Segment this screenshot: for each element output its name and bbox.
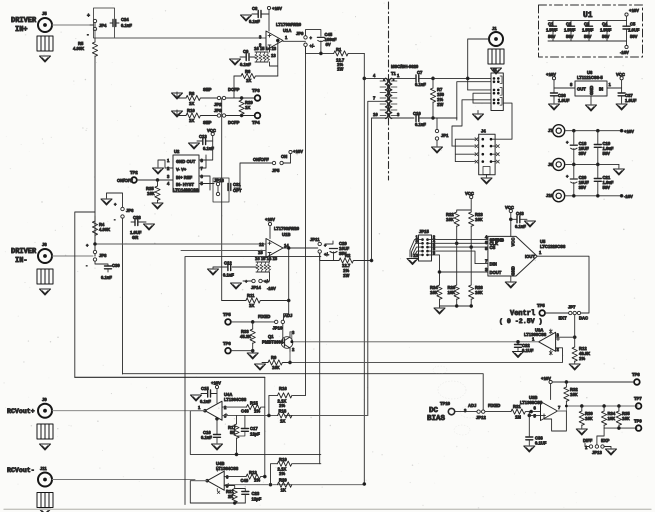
svg-text:-: - [86, 263, 88, 268]
capacitor C24 [110, 17, 132, 28]
svg-text:J7: J7 [548, 128, 553, 133]
ground J2 [473, 111, 484, 121]
svg-text:JP11: JP11 [310, 237, 320, 242]
svg-text:1%: 1% [279, 403, 285, 408]
svg-text:1%: 1% [254, 478, 260, 483]
capacitor C31 OPT [228, 182, 242, 193]
svg-text:50V: 50V [602, 34, 610, 39]
svg-text:1.0UF: 1.0UF [625, 98, 637, 103]
svg-text:1K: 1K [246, 78, 251, 83]
svg-text:+: + [86, 243, 89, 248]
resistor R19 2.1K [271, 457, 321, 485]
svg-text:50V: 50V [584, 34, 592, 39]
ground V- pin [153, 160, 174, 174]
svg-text:C15: C15 [201, 386, 209, 391]
resistor R26 10K [469, 247, 484, 306]
svg-text:SEP: SEP [203, 87, 212, 92]
resistor R5 4.99K [73, 41, 98, 56]
resistor R20 1K [277, 478, 291, 493]
svg-text:JP10: JP10 [273, 326, 283, 331]
ground J8 [613, 164, 624, 175]
testpoint TP5V [537, 303, 569, 316]
wire TP5 to JP10 [231, 321, 274, 323]
ground C15 [191, 395, 202, 401]
svg-text:IN: IN [599, 87, 603, 92]
resistor R30 45.3K [240, 322, 255, 351]
wire U1B- input [181, 250, 266, 252]
dashed box U1 bypass [539, 5, 643, 57]
wire pulldown bottoms [440, 306, 472, 307]
+16V U1B [265, 217, 275, 239]
svg-text:Ventrl: Ventrl [510, 310, 535, 318]
svg-text:1K: 1K [249, 303, 254, 308]
svg-text:TP4: TP4 [252, 120, 260, 125]
svg-text:U2: U2 [174, 149, 180, 154]
ground J5 [40, 56, 51, 62]
testpoint TP3 [252, 88, 260, 101]
transistor Q1 [262, 330, 295, 352]
svg-text:+16V: +16V [546, 72, 556, 77]
jumper JP7 [559, 305, 589, 321]
resistor R17 5K [228, 416, 239, 455]
long wire y374 to ADJ [123, 374, 484, 410]
ground R12 [569, 364, 580, 370]
ground C16 [212, 444, 223, 450]
svg-text:R10: R10 [187, 108, 195, 113]
svg-text:DIFF: DIFF [583, 438, 593, 443]
capacitor C5 [623, 21, 640, 41]
svg-text:+: + [566, 174, 569, 179]
wire U4B- to R13 [224, 476, 246, 478]
jumper JP13 [585, 445, 604, 455]
svg-text:1M: 1M [515, 415, 521, 420]
capacitor C23 12pF [235, 489, 262, 504]
jumper JP16 [213, 178, 229, 202]
testpoint TP8 [632, 372, 640, 385]
svg-text:2: 2 [292, 347, 295, 352]
svg-text:10K: 10K [622, 416, 630, 421]
svg-text:TP2: TP2 [130, 170, 138, 175]
wires JP15 to DAC [428, 240, 488, 272]
svg-text:VCC: VCC [465, 191, 474, 196]
svg-text:C4: C4 [602, 22, 608, 27]
svg-text:SEP: SEP [203, 120, 212, 125]
svg-text:JP12: JP12 [476, 415, 486, 420]
wire to JP12 [455, 411, 477, 413]
svg-text:JP14: JP14 [251, 285, 261, 290]
svg-text:TP6: TP6 [223, 341, 231, 346]
svg-text:JP8: JP8 [99, 253, 107, 258]
svg-text:R18: R18 [279, 409, 287, 414]
capacitor C9 [240, 49, 255, 67]
wire comp to pins [270, 41, 278, 77]
svg-text:DRIVER: DRIVER [11, 17, 37, 25]
svg-text:10: 10 [373, 112, 378, 117]
jumper JP14 [243, 276, 276, 291]
capacitor C22 [515, 340, 534, 353]
svg-text:+/-: +/- [324, 252, 330, 257]
jumper JP1 [435, 118, 449, 146]
svg-text:C5: C5 [630, 22, 636, 27]
shield J11 [37, 493, 53, 508]
ground C38 [524, 446, 535, 452]
svg-text:DC: DC [429, 407, 439, 415]
wire JP13 left [585, 443, 589, 447]
svg-text:GND: GND [511, 266, 516, 275]
capacitor C1 [546, 21, 558, 41]
svg-text:1: 1 [609, 82, 612, 87]
svg-text:J1: J1 [492, 26, 497, 31]
svg-text:( 0 -2.5V ): ( 0 -2.5V ) [499, 318, 543, 325]
wire R1 to T1 pin4 [364, 53, 386, 78]
wire JP2/JP3 rail down [221, 98, 223, 301]
connector J2 [491, 67, 503, 111]
wire IOUT [537, 256, 589, 313]
capacitor C38 [526, 412, 547, 446]
svg-text:0.1uF: 0.1uF [515, 224, 526, 229]
svg-text:0.1uF: 0.1uF [415, 122, 426, 127]
row SEP/DCFP 1 : ground R8 [172, 93, 183, 99]
svg-text:7: 7 [201, 166, 204, 171]
svg-text:J9: J9 [42, 397, 47, 402]
svg-text:50V: 50V [603, 151, 611, 156]
svg-text:-16V: -16V [624, 194, 633, 199]
wire Q1 emitter row [290, 352, 563, 363]
resistor R10 1K [177, 108, 217, 123]
svg-text:IN- HYST: IN- HYST [176, 182, 194, 187]
svg-text:1.0UF: 1.0UF [564, 28, 576, 33]
wire U4A- to R15 [222, 406, 247, 408]
resistor R25 10K [146, 180, 160, 203]
svg-text:10K: 10K [446, 217, 454, 222]
+16V JP5 [289, 149, 303, 163]
svg-text:C46: C46 [241, 409, 249, 414]
IC U2 LTC1460CS8 [167, 149, 204, 193]
svg-text:DIN: DIN [490, 262, 497, 267]
svg-text:TP9: TP9 [634, 419, 642, 424]
svg-text:TP8: TP8 [632, 372, 640, 377]
svg-text:J8: J8 [548, 162, 553, 167]
svg-text:10K: 10K [448, 290, 456, 295]
ground C36 [549, 104, 560, 110]
ground R9 [255, 364, 266, 370]
svg-text:6V: 6V [326, 42, 331, 47]
svg-text:8: 8 [570, 82, 573, 87]
svg-text:C10: C10 [413, 111, 421, 116]
+16V U1A [267, 6, 282, 31]
svg-text:+16V: +16V [293, 149, 303, 154]
resistor R9 10K [262, 355, 290, 370]
dash-dot line [388, 2, 390, 180]
wire JP11 to R2 [320, 253, 339, 260]
ground C8 [241, 15, 252, 21]
svg-text:C1: C1 [548, 22, 554, 27]
svg-text:TP3: TP3 [252, 88, 260, 93]
resistor R11 1K [222, 293, 289, 308]
ground JP1 [432, 147, 443, 153]
svg-text:-16V: -16V [620, 50, 629, 55]
svg-text:8: 8 [201, 158, 204, 163]
svg-text:16 15 14 13: 16 15 14 13 [254, 46, 277, 51]
svg-text:12pF: 12pF [250, 432, 260, 437]
svg-text:TP5: TP5 [223, 312, 231, 317]
resistor R4 4.99K [92, 216, 110, 256]
svg-text:3: 3 [259, 35, 262, 40]
jumper JP8a [114, 202, 134, 374]
connector J11 [38, 466, 52, 487]
ground C37 [616, 104, 627, 110]
ground C11 [208, 267, 220, 275]
svg-text:ON/OFF: ON/OFF [117, 178, 133, 183]
svg-text:C24: C24 [121, 17, 129, 22]
svg-text:GR: GR [132, 235, 138, 240]
svg-text:+16V: +16V [211, 381, 221, 386]
svg-text:1K: 1K [281, 488, 286, 493]
svg-text:JP3: JP3 [214, 108, 222, 113]
svg-text:1.0UF: 1.0UF [600, 28, 612, 33]
secondary winding [389, 78, 391, 118]
svg-text:ADJ: ADJ [284, 313, 293, 318]
svg-text:0.1uF: 0.1uF [240, 62, 251, 67]
svg-text:1%: 1% [579, 356, 585, 361]
box U1B region [185, 257, 321, 505]
svg-text:1.0UF: 1.0UF [558, 98, 570, 103]
svg-text:LT1793#W20: LT1793#W20 [274, 226, 300, 231]
svg-text:JP16: JP16 [214, 178, 224, 183]
svg-text:OPT: OPT [233, 188, 242, 193]
svg-text:J2: J2 [492, 67, 497, 72]
wire R5 down to JP8 row [94, 38, 96, 256]
wire J6 to JP8 [52, 255, 93, 257]
VCC DAC [505, 205, 514, 236]
svg-text:10K: 10K [585, 416, 593, 421]
wire JP12 to R31 [485, 411, 511, 413]
wire U4A+ row [222, 415, 368, 417]
feedback U3B [544, 411, 566, 431]
svg-text:7: 7 [373, 96, 376, 101]
svg-text:13: 13 [271, 53, 276, 58]
svg-text:J10: J10 [546, 193, 554, 198]
svg-text:1.0UF: 1.0UF [628, 28, 640, 33]
wire U1B out down to JP10 [284, 248, 320, 464]
svg-text:1.0UF: 1.0UF [582, 28, 594, 33]
ground comp [231, 283, 242, 289]
svg-text:FIXED: FIXED [258, 314, 270, 319]
svg-text:1K: 1K [189, 118, 194, 123]
svg-text:0.1uF: 0.1uF [201, 435, 212, 440]
svg-text:JP6: JP6 [126, 208, 134, 213]
DAC U5 LTC1329 [485, 235, 566, 277]
svg-text:EXT: EXT [559, 316, 568, 321]
header JP15 [414, 229, 436, 261]
wire J5 to JP4 [52, 24, 93, 26]
svg-text:J4: J4 [481, 129, 486, 134]
wires J4 [452, 139, 475, 161]
capacitor C4 [600, 21, 612, 41]
resistor R28 10K [448, 243, 460, 306]
svg-text:C43: C43 [516, 211, 524, 216]
svg-text:12pF: 12pF [252, 497, 262, 502]
jumper JP3 [214, 108, 226, 117]
op-amp U1A [259, 22, 302, 58]
svg-text:IN+ REF: IN+ REF [176, 175, 193, 180]
svg-text:IN+: IN+ [15, 26, 28, 34]
resistor R18 1K [278, 409, 292, 424]
svg-text:3: 3 [167, 174, 170, 179]
svg-text:JP13: JP13 [592, 450, 602, 455]
connector J9 [38, 397, 52, 418]
svg-text:-: - [87, 32, 89, 38]
svg-text:50V: 50V [548, 34, 556, 39]
capacitor C19 [594, 131, 614, 165]
+16V U3B [541, 376, 634, 400]
wire J11 to U4B [52, 480, 207, 481]
svg-text:OUT: OUT [577, 87, 586, 92]
op-amp U4B [207, 461, 239, 494]
svg-text:C2: C2 [566, 22, 572, 27]
svg-text:4.99K: 4.99K [73, 46, 84, 51]
svg-text:1%: 1% [279, 471, 285, 476]
wire J9 to U4A [52, 410, 205, 412]
svg-text:10K: 10K [608, 416, 616, 421]
feedback loop U4A [190, 411, 320, 455]
+16V bypass [625, 8, 639, 21]
svg-text:VCC: VCC [505, 205, 514, 210]
svg-text:0.1UF: 0.1UF [535, 441, 547, 446]
svg-text:7: 7 [558, 405, 561, 410]
capacitor C12 [219, 261, 256, 278]
svg-text:50V: 50V [630, 34, 638, 39]
svg-text:+: + [566, 140, 569, 145]
resistor R7 150 [430, 77, 444, 119]
svg-text:JP2: JP2 [214, 102, 222, 107]
wire T1 pin10 R2 [367, 118, 386, 261]
capacitor C20 [566, 164, 589, 195]
jumper JP4 [87, 8, 115, 38]
capacitor C29 [325, 241, 350, 256]
svg-text:10K: 10K [570, 392, 578, 397]
resistor R6 1K [234, 69, 278, 83]
bypass rail bottom [548, 40, 627, 42]
svg-text:LTC1460CS8: LTC1460CS8 [173, 188, 199, 193]
svg-text:1K: 1K [280, 419, 285, 424]
connector J10 [546, 190, 565, 202]
resistor R15 1K [241, 401, 265, 414]
ground C9 [230, 59, 241, 65]
ground J9 [40, 444, 51, 450]
svg-text:2K: 2K [228, 494, 233, 499]
svg-text:R20: R20 [279, 478, 287, 483]
testpoint TP6 [223, 341, 231, 354]
svg-text:1.0UF: 1.0UF [546, 28, 558, 33]
capacitor C21 [594, 164, 614, 195]
resistor R12 49.9K [572, 337, 590, 363]
resistor R21 2K [224, 486, 237, 504]
svg-text:4: 4 [373, 73, 376, 78]
capacitor C30 [95, 261, 120, 280]
ground C43 [525, 221, 536, 227]
resistor R35 10K [616, 405, 630, 429]
svg-text:LT1364CS8: LT1364CS8 [224, 397, 247, 402]
op-amp U3A [524, 328, 560, 356]
resistor R16 2.1K [269, 386, 306, 416]
svg-text:PMBT3904: PMBT3904 [262, 340, 284, 345]
svg-text:10K: 10K [475, 290, 483, 295]
jumper JP2 [214, 96, 226, 107]
svg-text:3: 3 [464, 408, 467, 413]
wire U4B+ row [224, 484, 364, 486]
capacitor C37 [618, 88, 637, 103]
wire U3B out row [558, 406, 639, 411]
svg-text:R15: R15 [250, 401, 258, 406]
svg-text:DCFP: DCFP [228, 120, 240, 125]
svg-text:35V: 35V [579, 151, 587, 156]
svg-text:45.3K: 45.3K [240, 334, 251, 339]
svg-text:DRIVER: DRIVER [11, 248, 37, 256]
svg-text:JP7: JP7 [568, 305, 576, 310]
svg-text:R2: R2 [345, 253, 351, 258]
capacitor C45 [317, 32, 337, 53]
resistor R31 1M [511, 404, 541, 420]
svg-text:0.1uF: 0.1uF [415, 82, 426, 87]
wire JP9 to R1 [306, 46, 334, 53]
svg-text:5K: 5K [230, 430, 235, 435]
svg-text:DAC: DAC [579, 316, 588, 321]
svg-text:4.99K: 4.99K [99, 227, 110, 232]
ground pulldowns [434, 308, 445, 314]
svg-text:1W: 1W [337, 67, 343, 72]
capacitor C17 12pF [237, 416, 261, 437]
wire J7 +16V [566, 130, 620, 132]
svg-text:0.1UF: 0.1UF [522, 348, 534, 353]
connector J1 [489, 26, 503, 46]
svg-text:GND OUT: GND OUT [176, 159, 196, 164]
svg-text:+16V: +16V [272, 6, 282, 11]
resistor R22 10K [446, 212, 459, 243]
op-amp U4A [198, 392, 247, 420]
ground JP13 [604, 447, 617, 456]
jumper JP9 [296, 31, 315, 49]
svg-text:R19: R19 [279, 457, 287, 462]
VCC U2 [199, 128, 216, 160]
svg-text:1W: 1W [343, 273, 349, 278]
svg-text:DCFP: DCFP [228, 87, 240, 92]
svg-text:4: 4 [167, 181, 170, 186]
resistor R13 1K [241, 470, 265, 483]
secondary top wire [392, 77, 414, 79]
wire J8 gnd [566, 163, 619, 165]
capacitor C13 [197, 134, 214, 151]
ground JP8a [101, 193, 123, 207]
testpoint TP4 [252, 113, 260, 125]
svg-text:1: 1 [285, 35, 288, 40]
shield J1 [488, 49, 504, 64]
svg-text:C9: C9 [243, 49, 249, 54]
svg-text:2: 2 [167, 166, 170, 171]
svg-text:0.1uF: 0.1uF [249, 19, 260, 24]
svg-text:6: 6 [534, 405, 537, 410]
svg-text:U1B: U1B [282, 232, 290, 237]
svg-text:+: + [114, 202, 117, 207]
svg-text:R11: R11 [247, 293, 255, 298]
svg-text:J6: J6 [42, 242, 47, 247]
svg-text:+16V: +16V [629, 8, 639, 13]
svg-text:+/-: +/- [264, 279, 270, 284]
svg-text:3: 3 [224, 414, 227, 419]
svg-text:R1: R1 [336, 47, 342, 52]
svg-text:ADJ: ADJ [468, 403, 477, 408]
primary winding [386, 78, 388, 118]
